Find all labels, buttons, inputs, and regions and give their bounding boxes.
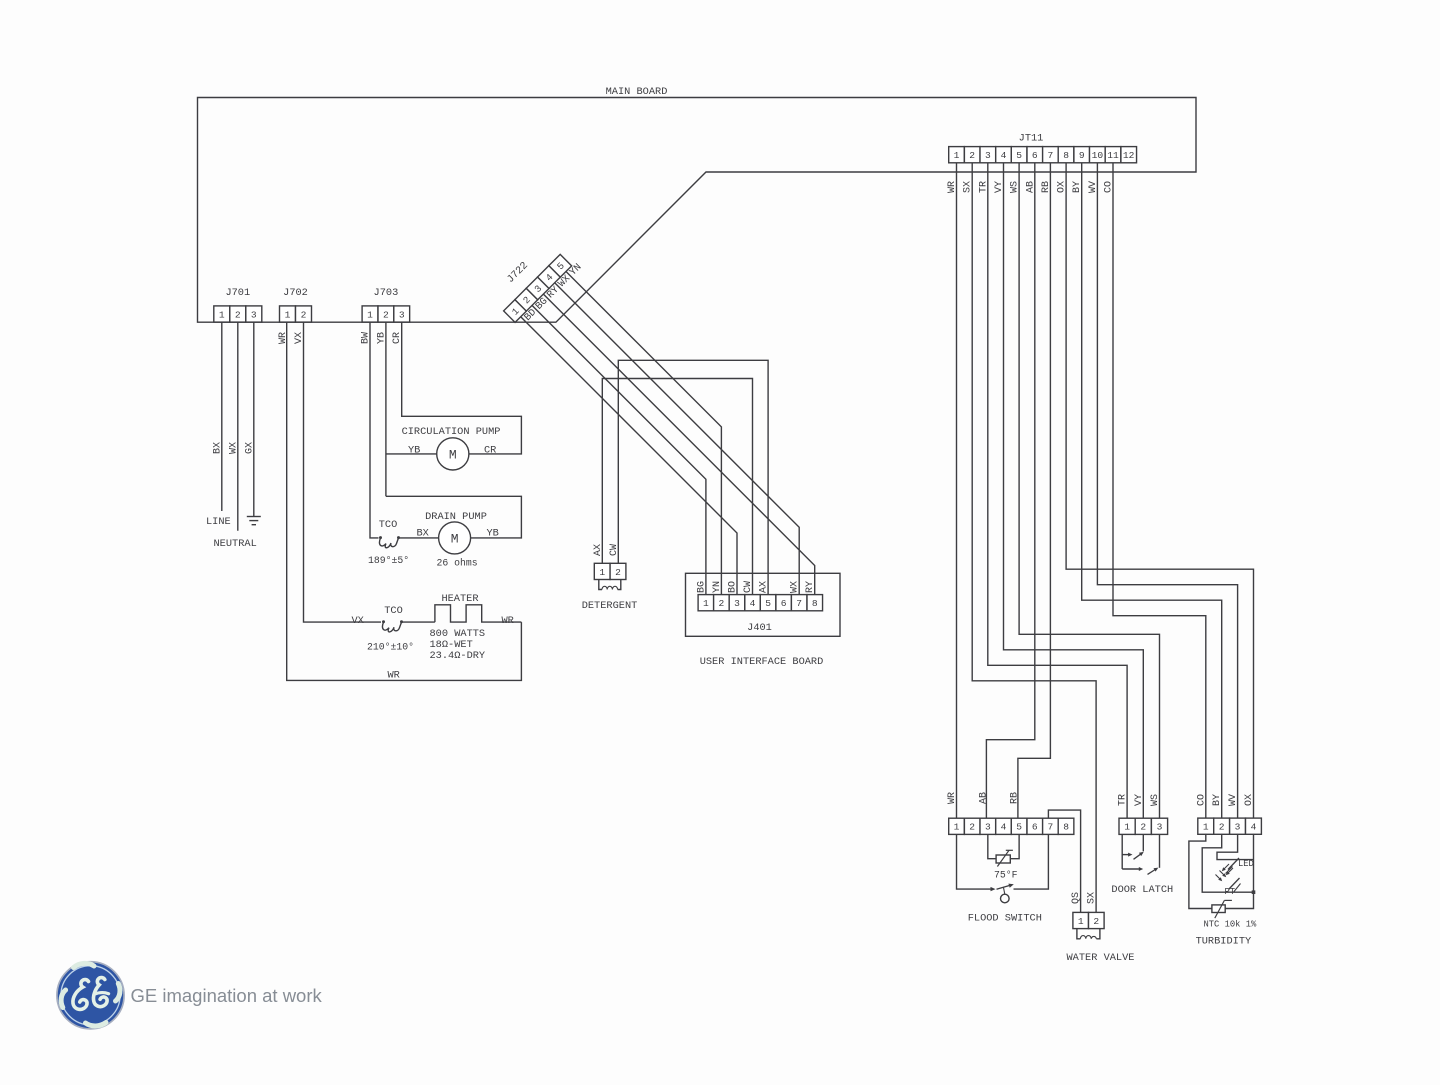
svg-text:3: 3 — [251, 309, 257, 320]
svg-text:1: 1 — [599, 567, 605, 578]
svg-text:CW: CW — [743, 581, 754, 593]
drain pump labels — [368, 511, 499, 569]
wire TCO to heater element — [402, 621, 435, 623]
ground symbol — [247, 517, 261, 525]
svg-text:12: 12 — [1123, 150, 1135, 161]
svg-text:5: 5 — [1016, 150, 1022, 161]
wire JT11 pin2 SX to water valve pin2 — [972, 163, 1096, 913]
svg-text:GE imagination at work: GE imagination at work — [131, 985, 323, 1006]
svg-text:TR: TR — [1118, 794, 1129, 806]
svg-text:10: 10 — [1092, 150, 1104, 161]
svg-text:USER INTERFACE BOARD: USER INTERFACE BOARD — [700, 656, 824, 668]
svg-text:CIRCULATION PUMP: CIRCULATION PUMP — [402, 426, 501, 438]
motor M drain pump — [439, 522, 471, 554]
flood switch thermostat 75F — [988, 834, 1019, 880]
main board label — [606, 86, 668, 98]
svg-text:2: 2 — [615, 567, 621, 578]
svg-text:YN: YN — [712, 581, 723, 593]
circulation pump labels — [402, 426, 501, 457]
svg-text:AX: AX — [759, 581, 770, 593]
svg-text:CR: CR — [484, 445, 496, 457]
connector door latch — [1119, 818, 1168, 834]
main board outline — [198, 98, 1197, 323]
GE logo — [57, 962, 124, 1029]
LED — [1222, 858, 1254, 875]
connector J702 — [280, 287, 312, 322]
svg-text:BX: BX — [417, 528, 429, 540]
svg-text:NEUTRAL: NEUTRAL — [214, 538, 257, 550]
door latch wire labels TR VY WS — [1118, 794, 1161, 806]
svg-text:RB: RB — [1010, 792, 1021, 804]
svg-text:1: 1 — [954, 150, 960, 161]
wire J722 pin5 to J401 pin2 — [566, 272, 721, 595]
WATER VALVE label — [1067, 952, 1135, 964]
svg-text:JT11: JT11 — [1019, 133, 1044, 145]
wire JT11 pin8 OX to turbidity pin4 — [1066, 163, 1253, 818]
turbidity wire labels CO BY WV OX — [1196, 794, 1255, 806]
svg-text:23.4Ω-DRY: 23.4Ω-DRY — [430, 650, 486, 662]
wire J701 pin2 NEUTRAL — [237, 322, 239, 531]
wire J722 pin3 to J401 pin8 — [543, 294, 814, 594]
svg-text:HEATER: HEATER — [441, 593, 478, 605]
svg-text:AX: AX — [593, 544, 604, 556]
DETERGENT label — [582, 600, 638, 612]
svg-text:PT: PT — [1225, 887, 1236, 897]
svg-text:7: 7 — [796, 598, 802, 609]
svg-text:J702: J702 — [283, 287, 308, 299]
water valve wire labels QS SX — [1071, 892, 1098, 904]
svg-text:6: 6 — [1032, 150, 1038, 161]
svg-text:DRAIN PUMP: DRAIN PUMP — [425, 511, 487, 523]
wire JT11 pin5 WS to door latch pin3 — [1019, 163, 1159, 818]
svg-text:2: 2 — [301, 309, 307, 320]
svg-text:WATER VALVE: WATER VALVE — [1067, 952, 1135, 964]
svg-text:75°F: 75°F — [994, 870, 1018, 881]
J401 wire labels — [696, 581, 816, 593]
svg-text:TCO: TCO — [379, 519, 398, 531]
svg-text:8: 8 — [1063, 150, 1069, 161]
NTC thermistor — [1212, 900, 1232, 918]
svg-text:8: 8 — [812, 598, 818, 609]
wire JT11 pin9 BY to turbidity pin2 — [1082, 163, 1222, 818]
svg-text:8: 8 — [1063, 822, 1069, 833]
wire circulation pump left YB — [386, 453, 437, 455]
J701 wire labels BX WX GX — [212, 442, 255, 454]
svg-text:LINE: LINE — [206, 516, 231, 528]
svg-text:WV: WV — [1228, 794, 1239, 806]
svg-text:AB: AB — [978, 792, 989, 804]
svg-text:OX: OX — [1244, 794, 1255, 806]
svg-text:WX: WX — [790, 581, 801, 593]
svg-text:2: 2 — [969, 822, 975, 833]
svg-text:189°±5°: 189°±5° — [368, 555, 409, 566]
connector J701 — [214, 287, 262, 322]
svg-text:BG: BG — [696, 581, 707, 593]
svg-text:3: 3 — [985, 150, 991, 161]
door latch switch 1 — [1122, 834, 1144, 869]
svg-text:26 ohms: 26 ohms — [437, 558, 478, 569]
svg-text:1: 1 — [1078, 916, 1084, 927]
wire JT11 pin6 AB to flood switch pin3 — [986, 163, 1034, 818]
svg-text:5: 5 — [765, 598, 771, 609]
svg-text:3: 3 — [1235, 822, 1241, 833]
motor M circulation pump — [437, 438, 469, 470]
svg-text:M: M — [451, 532, 459, 547]
connector water valve — [1073, 912, 1104, 928]
FLOOD SWITCH label — [968, 913, 1042, 925]
junction dot turbidity pin4/PT — [1252, 890, 1256, 894]
wire J703 pin3 CR to circulation pump — [402, 322, 522, 454]
svg-text:3: 3 — [399, 309, 405, 320]
wire drain pump top loop — [386, 496, 522, 538]
J722 wire labels BD BG RY WX YN — [523, 262, 585, 324]
svg-text:2: 2 — [383, 309, 389, 320]
svg-text:WS: WS — [1150, 794, 1161, 806]
svg-text:1: 1 — [219, 309, 225, 320]
svg-text:J701: J701 — [225, 287, 250, 299]
wire turbidity pin3 to LED — [1217, 834, 1254, 860]
node NEUTRAL label — [214, 538, 257, 550]
svg-text:LED: LED — [1238, 859, 1254, 869]
svg-text:5: 5 — [1016, 822, 1022, 833]
DOOR LATCH label — [1111, 884, 1173, 896]
wire J702 pin2 VX to heater TCO — [304, 322, 382, 622]
wire J703 pin2 YB down — [385, 322, 387, 496]
svg-text:4: 4 — [1001, 150, 1007, 161]
svg-text:7: 7 — [1048, 150, 1054, 161]
svg-text:9: 9 — [1079, 150, 1085, 161]
svg-text:2: 2 — [1140, 822, 1146, 833]
J702 wire labels WR VX — [278, 332, 305, 344]
svg-text:TCO: TCO — [384, 605, 403, 617]
svg-text:1: 1 — [367, 309, 373, 320]
svg-text:6: 6 — [781, 598, 787, 609]
wire J701 pin3 to ground — [253, 322, 255, 516]
svg-text:4: 4 — [1251, 822, 1257, 833]
wire flood pin7 to water valve pin1 — [1048, 810, 1080, 912]
svg-text:1: 1 — [285, 309, 291, 320]
wire turbidity pin2 to phototransistor — [1202, 834, 1253, 892]
svg-text:J401: J401 — [747, 622, 772, 634]
wire J703 pin1 BW to TCO — [370, 322, 379, 538]
svg-text:2: 2 — [719, 598, 725, 609]
connector DETERGENT — [594, 563, 626, 579]
svg-text:VY: VY — [1134, 794, 1145, 806]
svg-text:CW: CW — [609, 544, 620, 556]
svg-text:3: 3 — [985, 822, 991, 833]
svg-text:YB: YB — [408, 445, 420, 457]
svg-text:1: 1 — [1203, 822, 1209, 833]
NTC value label — [1204, 920, 1258, 930]
detergent wire labels AX CW — [593, 544, 620, 556]
wire JT11 pin10 WV to turbidity pin3 — [1097, 163, 1237, 818]
svg-text:3: 3 — [1157, 822, 1163, 833]
door latch switch 2 — [1122, 834, 1159, 874]
wire J722 pin1 to J401 pin3 — [521, 317, 737, 595]
svg-text:NTC 10k 1%: NTC 10k 1% — [1204, 920, 1258, 930]
svg-text:4: 4 — [750, 598, 756, 609]
svg-text:WR: WR — [502, 615, 514, 627]
user interface board box — [686, 573, 841, 636]
svg-text:J703: J703 — [374, 287, 399, 299]
svg-text:2: 2 — [235, 309, 241, 320]
svg-text:RY: RY — [805, 581, 816, 593]
svg-text:BY: BY — [1212, 794, 1223, 806]
svg-text:M: M — [449, 448, 457, 463]
svg-text:6: 6 — [1032, 822, 1038, 833]
svg-text:WR: WR — [388, 670, 400, 682]
heater element — [435, 605, 522, 622]
wire J722 pin4 to J401 pin7 — [555, 283, 800, 595]
wire heater right WR down and around to J702 pin1 — [287, 322, 522, 680]
J703 wire labels BW YB CR — [361, 332, 404, 344]
wire JT11 pin1 WR to flood switch pin1 — [956, 163, 958, 818]
svg-text:DETERGENT: DETERGENT — [582, 600, 638, 612]
svg-text:TURBIDITY: TURBIDITY — [1196, 936, 1252, 948]
svg-text:YB: YB — [487, 528, 499, 540]
svg-text:WR: WR — [947, 792, 958, 804]
detergent solenoid coil — [599, 580, 621, 590]
svg-text:2: 2 — [1219, 822, 1225, 833]
svg-text:QS: QS — [1071, 892, 1082, 904]
wire JT11 pin3 TR to door latch pin1 — [988, 163, 1127, 818]
phototransistor PT — [1216, 871, 1241, 898]
JT11 wire labels — [947, 181, 1115, 193]
svg-text:CO: CO — [1196, 794, 1207, 806]
heater labels — [352, 593, 514, 682]
wire NTC to turbidity pin4 — [1225, 834, 1253, 909]
wire detergent pin1 AX to J401 pin4 — [602, 379, 752, 595]
flood switch contact — [957, 834, 1049, 902]
node LINE label — [206, 516, 231, 528]
svg-text:210°±10°: 210°±10° — [367, 642, 414, 653]
wire detergent pin2 CW to J401 pin5 — [618, 360, 768, 594]
wire JT11 pin7 RB to flood switch pin5 — [1018, 163, 1051, 818]
connector J401 — [698, 595, 822, 634]
wire J722 pin2 to J401 pin1 — [532, 305, 706, 594]
svg-text:FLOOD SWITCH: FLOOD SWITCH — [968, 913, 1042, 925]
GE tagline — [131, 985, 323, 1006]
connector J722 — [487, 238, 571, 322]
svg-text:SX: SX — [1087, 892, 1098, 904]
connector JT11 — [949, 133, 1137, 163]
connector flood switch — [949, 818, 1074, 834]
svg-text:VX: VX — [352, 615, 364, 627]
svg-text:MAIN BOARD: MAIN BOARD — [606, 86, 668, 98]
svg-text:7: 7 — [1048, 822, 1054, 833]
wire JT11 pin4 VY to door latch pin2 — [1004, 163, 1144, 818]
svg-text:DOOR LATCH: DOOR LATCH — [1111, 884, 1173, 896]
connector J703 — [362, 287, 410, 322]
wire TCO to drain motor — [399, 537, 439, 539]
connector turbidity — [1198, 818, 1262, 834]
TCO thermal cutoff (heater) — [382, 620, 403, 632]
USER INTERFACE BOARD label — [700, 656, 824, 668]
svg-text:1: 1 — [954, 822, 960, 833]
svg-text:11: 11 — [1107, 150, 1119, 161]
TCO thermal cutoff (drain) — [379, 536, 400, 548]
flood switch wire labels WR AB RB — [947, 792, 1021, 804]
wire JT11 pin11 CO to turbidity pin1 — [1113, 163, 1206, 818]
svg-text:1: 1 — [1124, 822, 1130, 833]
svg-text:2: 2 — [969, 150, 975, 161]
TURBIDITY label — [1196, 936, 1252, 948]
svg-text:BO: BO — [728, 581, 739, 593]
wire J701 pin1 LINE — [221, 322, 223, 511]
svg-text:2: 2 — [1093, 916, 1099, 927]
svg-text:1: 1 — [703, 598, 709, 609]
svg-text:4: 4 — [1001, 822, 1007, 833]
svg-text:3: 3 — [734, 598, 740, 609]
water valve solenoid coil — [1077, 929, 1100, 939]
wire turbidity pin1 to NTC — [1189, 834, 1212, 909]
